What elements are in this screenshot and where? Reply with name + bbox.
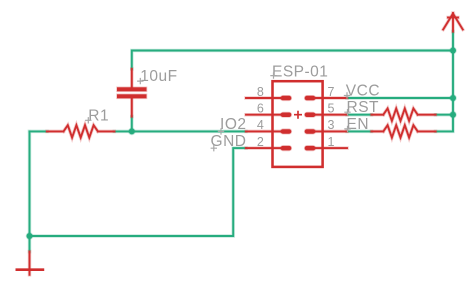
svg-text:10uF: 10uF [140, 68, 177, 85]
svg-text:5: 5 [328, 102, 335, 116]
svg-text:4: 4 [257, 118, 264, 132]
svg-text:RST: RST [347, 99, 380, 116]
svg-text:2: 2 [257, 135, 264, 149]
svg-text:GND: GND [211, 133, 247, 150]
svg-text:EN: EN [347, 116, 370, 133]
svg-text:ESP-01: ESP-01 [272, 64, 328, 81]
svg-text:VCC: VCC [346, 83, 380, 100]
svg-text:1: 1 [328, 135, 335, 149]
svg-text:7: 7 [328, 85, 335, 99]
svg-text:8: 8 [257, 85, 264, 99]
svg-text:3: 3 [328, 118, 335, 132]
svg-text:6: 6 [257, 102, 264, 116]
svg-text:R1: R1 [88, 107, 109, 124]
svg-text:IO2: IO2 [220, 116, 246, 133]
